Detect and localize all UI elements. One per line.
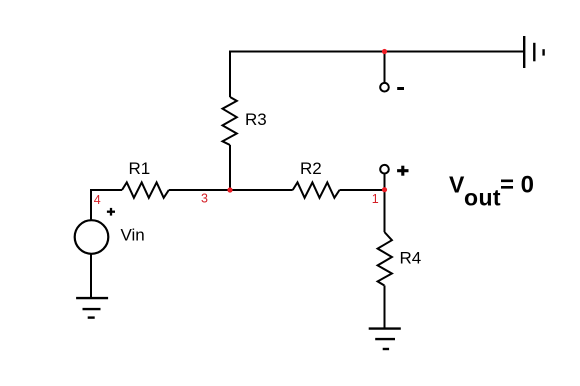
wire middle-left segment from corner to R1 xyxy=(91,189,122,191)
svg-text:R1: R1 xyxy=(129,159,151,178)
wire stub from node 1 up to plus terminal xyxy=(384,174,386,190)
svg-text:V: V xyxy=(449,171,465,197)
resistor R3 xyxy=(223,97,237,145)
wire from R4 to ground xyxy=(384,286,386,329)
svg-text:out: out xyxy=(464,185,501,211)
svg-text:= 0: = 0 xyxy=(500,172,534,199)
svg-text:Vin: Vin xyxy=(121,225,145,244)
junction dot node 1 (red) xyxy=(382,187,387,192)
svg-text:R3: R3 xyxy=(245,110,267,129)
label + (plus at output) xyxy=(397,166,408,176)
svg-text:4: 4 xyxy=(94,193,101,207)
resistor R2 xyxy=(293,182,340,197)
ground (below Vin) xyxy=(76,298,108,318)
label Vout = 0 xyxy=(449,171,534,210)
wire from node 1 down to R4 xyxy=(384,190,386,232)
wire top horizontal net (node 2) xyxy=(229,51,524,53)
wire from R3 to node 3 xyxy=(229,145,231,190)
junction dot (red) on top wire xyxy=(382,49,387,54)
label - (minus) xyxy=(397,87,404,90)
ground (top right, rotated sideways) xyxy=(524,36,543,68)
resistor R4 xyxy=(378,232,392,286)
terminal (open circle) plus xyxy=(380,165,389,174)
wire vertical from corner down to Vin xyxy=(90,189,92,221)
wire from R2 to node 1 xyxy=(340,189,385,191)
source Vin (circle) xyxy=(75,220,109,254)
wire vertical from top wire down to R3 xyxy=(229,52,231,98)
wire from node 3 to R2 xyxy=(230,189,293,191)
svg-text:3: 3 xyxy=(201,192,208,206)
svg-text:R4: R4 xyxy=(400,249,422,268)
svg-text:1: 1 xyxy=(372,192,379,206)
terminal (open circle) minus xyxy=(380,83,389,92)
ground (below R4) xyxy=(369,329,401,349)
wire from R1 to node 3 xyxy=(169,189,230,191)
junction dot node 3 (red) xyxy=(227,187,232,192)
label + (Vin polarity) xyxy=(107,208,115,216)
svg-text:R2: R2 xyxy=(300,159,322,178)
resistor R1 xyxy=(122,182,169,197)
wire stub from top junction down to minus terminal xyxy=(384,52,386,83)
wire from Vin down to ground xyxy=(90,254,92,299)
